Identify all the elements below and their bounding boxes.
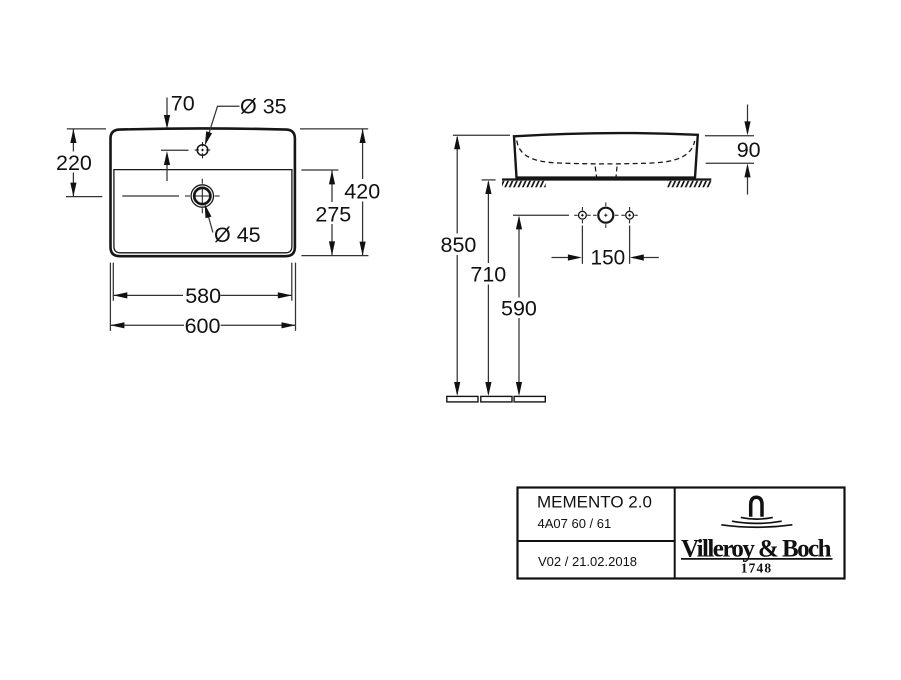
dim 220 extension bottom <box>66 196 102 198</box>
logo arc 1 <box>741 517 773 519</box>
svg-text:MEMENTO 2.0: MEMENTO 2.0 <box>537 493 652 512</box>
tap hole circle <box>197 145 208 156</box>
dim 420 extension bottom <box>301 255 368 257</box>
dim 580 arrows <box>113 292 127 298</box>
basin profile <box>514 133 698 178</box>
dim 850 extension top <box>453 134 510 136</box>
dim 850 line <box>456 137 458 394</box>
dim 70 reference line <box>161 149 189 151</box>
leader Ø45 <box>207 210 213 233</box>
hole center middle <box>598 208 613 223</box>
dim 710 extension top <box>482 179 496 181</box>
dim 600 arrows <box>110 322 124 328</box>
dim 275 arrows <box>329 170 335 184</box>
dim 275 line <box>331 170 333 255</box>
svg-text:1748: 1748 <box>741 560 772 575</box>
drain center reference line <box>122 195 179 197</box>
title block horizontal divider <box>518 540 675 542</box>
logo underline <box>681 558 833 560</box>
dim 90 extension bottom <box>706 162 754 164</box>
logo arc 2 <box>732 521 782 523</box>
dim 710 line <box>487 182 489 394</box>
countertop hatch left <box>502 181 546 188</box>
svg-text:590: 590 <box>501 297 537 321</box>
svg-text:70: 70 <box>171 92 195 116</box>
dim 150 line right <box>633 257 659 259</box>
dim 590 arrows <box>516 215 522 229</box>
dim 580 line <box>113 294 291 296</box>
svg-text:150: 150 <box>591 247 626 270</box>
dim 90 extension top <box>705 135 754 137</box>
dim 70 lower arrow <box>166 155 168 182</box>
svg-text:220: 220 <box>56 151 92 175</box>
svg-text:Ø 35: Ø 35 <box>240 94 287 118</box>
svg-text:V02 / 21.02.2018: V02 / 21.02.2018 <box>538 554 637 569</box>
dim 420 extension top <box>300 128 368 130</box>
holes reference line <box>513 214 569 216</box>
dim 420 line <box>362 129 364 256</box>
svg-text:580: 580 <box>185 284 221 308</box>
hole center small left <box>579 211 587 219</box>
dim 600 extensions <box>110 263 295 331</box>
dim 220 arrows <box>70 129 76 143</box>
svg-text:4A07 60 / 61: 4A07 60 / 61 <box>538 516 612 531</box>
dim 150 extensions <box>582 226 629 264</box>
tap hole center marks <box>195 142 211 158</box>
dim 90 lower arrow <box>747 167 749 195</box>
drain hole outer circle <box>191 185 213 207</box>
dim 850 arrows <box>454 135 460 149</box>
dim 275 extension top <box>301 169 338 171</box>
basin inner rim <box>114 170 292 253</box>
dim 590 line <box>518 218 520 395</box>
svg-text:710: 710 <box>470 263 506 287</box>
dim 220 line <box>72 129 74 197</box>
dim 150 line left <box>552 257 579 259</box>
logo arc 3 <box>721 525 792 527</box>
countertop hatch right <box>667 181 711 188</box>
drain dashed lines <box>595 167 617 178</box>
dim 710 arrows <box>485 180 491 194</box>
drain center marks <box>185 179 220 214</box>
dim 220 extension top <box>67 128 106 130</box>
bowl dashed line <box>517 141 695 164</box>
svg-text:275: 275 <box>315 202 351 226</box>
dim 580 extensions <box>113 263 291 301</box>
dim 420 arrows <box>360 129 366 143</box>
center marks small right <box>621 207 637 223</box>
floor block 2 <box>481 396 512 402</box>
svg-text:850: 850 <box>441 233 477 257</box>
floor block 1 <box>447 396 478 402</box>
basin outer outline <box>111 128 295 256</box>
title block frame <box>518 488 845 579</box>
dim 600 line <box>110 324 295 326</box>
title block vertical divider <box>674 488 676 579</box>
svg-text:90: 90 <box>737 138 761 162</box>
dim 90 upper arrow <box>747 105 749 133</box>
svg-text:600: 600 <box>185 314 221 338</box>
drain hole inner circle <box>194 188 210 204</box>
svg-text:420: 420 <box>344 180 380 204</box>
floor block 3 <box>514 396 545 402</box>
leader Ø35 <box>206 106 239 142</box>
dim 70 upper arrow <box>166 98 168 127</box>
countertop line <box>502 178 711 180</box>
svg-text:Ø 45: Ø 45 <box>214 223 261 247</box>
logo arch <box>751 497 762 517</box>
center marks middle <box>593 203 618 228</box>
hole center small right <box>626 211 634 219</box>
center marks small left <box>574 207 590 223</box>
